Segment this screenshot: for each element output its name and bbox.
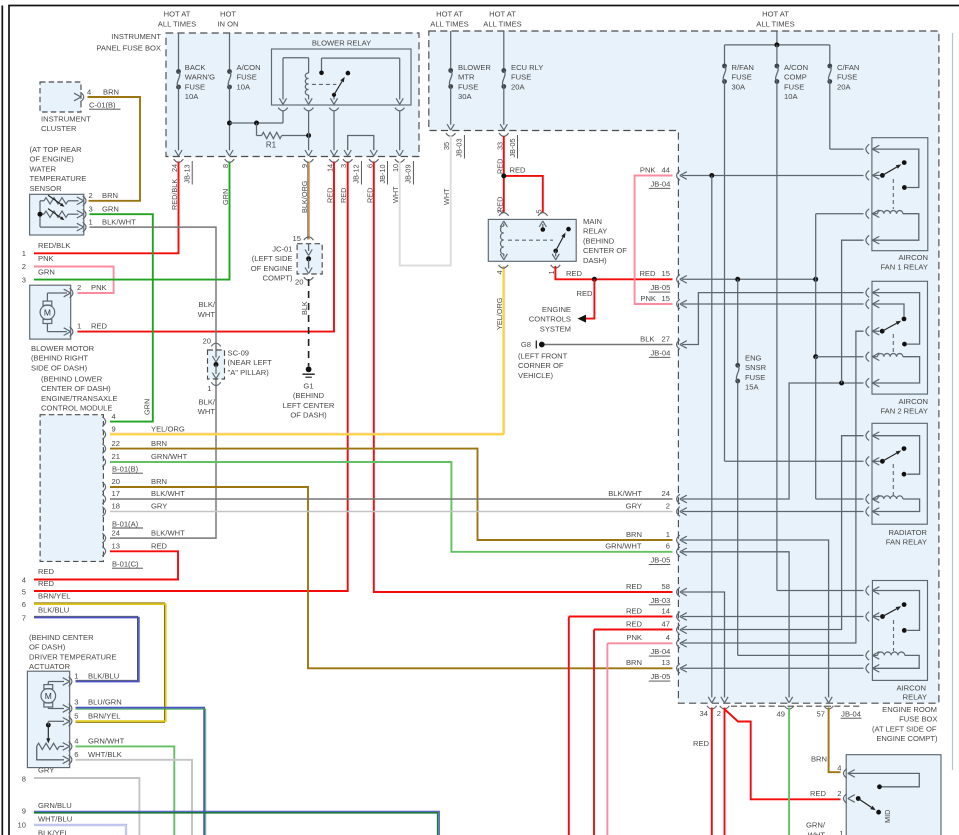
svg-text:JB-04: JB-04 — [650, 647, 670, 656]
wire GRY row 8 down — [34, 778, 139, 835]
main relay top cups — [495, 209, 547, 215]
wire BLK/WHT sensor pin1 through SC-09 to ECM pin 24 — [90, 227, 217, 538]
svg-text:13: 13 — [662, 658, 670, 667]
row 2 labels — [22, 254, 54, 271]
pin 24 label — [170, 164, 179, 172]
label B-01(B) — [112, 465, 143, 474]
svg-text:GRY: GRY — [38, 766, 54, 775]
blower motor pin 1 — [70, 322, 108, 337]
row 6 labels — [22, 592, 71, 609]
wire blower relay pin C to box edge — [330, 111, 337, 156]
svg-text:OF DASH): OF DASH) — [29, 643, 66, 652]
sensor thermistor 1 — [40, 195, 79, 207]
page frame right faint rule — [952, 33, 954, 770]
MID pin 2 — [837, 789, 855, 803]
fuse A/CON FUSE 10A — [226, 33, 261, 156]
svg-text:1: 1 — [839, 829, 843, 835]
svg-text:2: 2 — [666, 501, 670, 510]
svg-text:BLK/BLU: BLK/BLU — [38, 606, 69, 615]
wire name BLK (rotated) — [300, 301, 309, 315]
actuator pin 6 — [69, 750, 122, 765]
svg-text:15: 15 — [293, 234, 301, 243]
svg-text:10A: 10A — [784, 92, 798, 101]
wire RED pin6 to JB-03 58 — [374, 162, 673, 593]
svg-text:RADIATOR: RADIATOR — [888, 528, 927, 537]
wire YEL/ORG ECM pin9 to main relay pin 4 (two-tone) — [110, 266, 505, 435]
svg-text:FAN 2 RELAY: FAN 2 RELAY — [880, 407, 928, 416]
svg-text:6: 6 — [74, 750, 78, 759]
svg-text:BLK/: BLK/ — [199, 398, 216, 407]
pin 34 label — [700, 709, 708, 718]
radiator relay switch — [872, 436, 919, 496]
svg-text:1: 1 — [74, 672, 78, 681]
svg-text:WHT: WHT — [198, 407, 216, 416]
svg-text:BLOWER RELAY: BLOWER RELAY — [312, 39, 371, 48]
svg-text:"A" PILLAR): "A" PILLAR) — [228, 368, 270, 377]
svg-text:GRN: GRN — [102, 204, 119, 213]
svg-text:PNK: PNK — [640, 165, 656, 174]
aircon fan2 relay switch — [872, 293, 919, 353]
label B-01(A) — [112, 519, 143, 528]
svg-text:15: 15 — [662, 294, 670, 303]
pin 33 label — [495, 142, 504, 150]
label RED branch — [510, 166, 527, 175]
label instrument panel fuse box — [96, 32, 161, 53]
svg-text:10A: 10A — [185, 92, 199, 101]
wire RED pin14 to blower motor pin 1 — [78, 162, 335, 332]
svg-text:PNK: PNK — [38, 254, 54, 263]
ECM pin 22 label — [112, 439, 168, 448]
svg-text:HOT AT: HOT AT — [489, 10, 516, 19]
fuse BLOWER MTR FUSE 30A — [447, 31, 491, 130]
wire BRN bottom pin 57 to MID pin 4 — [829, 708, 841, 773]
pin JB-09 label — [404, 161, 414, 185]
ECM pin 13 label — [112, 542, 168, 551]
svg-text:OF ENGINE: OF ENGINE — [251, 264, 293, 273]
wire BLK/BLU row 7 to actuator pin 1 (two-tone) — [34, 616, 139, 681]
svg-text:BLK: BLK — [300, 301, 309, 315]
pin 14 label — [326, 164, 335, 172]
svg-text:B-01(B): B-01(B) — [112, 465, 139, 474]
svg-text:BLOWER: BLOWER — [458, 63, 491, 72]
label HOT IN ON (a/con fuse) — [217, 10, 238, 29]
wire rail to blower relay pin — [230, 111, 284, 126]
blower relay coil — [279, 58, 312, 105]
svg-text:GRN/WHT: GRN/WHT — [88, 736, 125, 745]
svg-text:58: 58 — [662, 582, 670, 591]
svg-text:30A: 30A — [458, 92, 472, 101]
edge connector BLK/WHT 24 — [608, 489, 687, 504]
svg-text:JB-03: JB-03 — [650, 596, 670, 605]
driver temperature actuator box — [27, 671, 69, 767]
radiator relay coil — [872, 496, 919, 512]
svg-text:DASH): DASH) — [583, 256, 607, 265]
svg-text:24: 24 — [662, 489, 670, 498]
actuator pin 3 — [69, 698, 122, 714]
label engine/transaxle control module — [41, 375, 117, 413]
pin 6 label — [365, 164, 374, 168]
aircon fan2 relay coil — [872, 354, 919, 383]
wire RED 14 to aircon relay pin 2 column — [569, 617, 673, 835]
row 1 labels — [22, 241, 71, 258]
label HOT AT ALL TIMES (back warn'g fuse) — [158, 10, 196, 29]
svg-text:JB-05: JB-05 — [650, 556, 670, 565]
svg-text:JB-05: JB-05 — [650, 283, 670, 292]
ECM pin 17 label — [112, 489, 186, 498]
svg-text:14: 14 — [662, 606, 670, 615]
svg-text:GRN: GRN — [38, 267, 55, 276]
svg-text:SYSTEM: SYSTEM — [540, 324, 571, 333]
svg-text:INSTRUMENT: INSTRUMENT — [41, 115, 91, 124]
wire BLK/WHT ECM pin17 to 24 — [110, 498, 673, 500]
svg-text:RED: RED — [810, 789, 827, 798]
svg-text:(AT TOP REAR: (AT TOP REAR — [30, 145, 83, 154]
wire name BLK/ORG (rotated) — [300, 180, 309, 213]
svg-text:2: 2 — [89, 191, 93, 200]
wire WHT/BLU row 10 down (two-tone) — [34, 825, 126, 835]
svg-text:RED: RED — [38, 567, 55, 576]
edge connector PNK 44 — [640, 165, 687, 188]
svg-text:44: 44 — [662, 165, 670, 174]
ECM pin 21 label — [112, 452, 188, 461]
svg-text:34: 34 — [700, 709, 708, 718]
edge connector RED 15 — [639, 269, 686, 292]
svg-text:5: 5 — [22, 588, 26, 597]
wire top rail — [725, 31, 830, 47]
wire RED 58 row internal — [682, 592, 728, 703]
svg-text:JB-03: JB-03 — [455, 138, 464, 157]
svg-text:B-01(C): B-01(C) — [112, 560, 139, 569]
svg-text:RED: RED — [626, 620, 643, 629]
engine room fuse box (dashed L-shape) — [429, 31, 939, 703]
ECM pin 9 label — [112, 425, 185, 434]
sensor thermistor 2 — [40, 209, 79, 221]
engine room box bottom pin cups — [707, 706, 862, 709]
svg-text:(BEHIND CENTER: (BEHIND CENTER — [29, 633, 94, 642]
svg-text:OF DASH): OF DASH) — [290, 411, 327, 420]
svg-text:RED: RED — [510, 166, 527, 175]
svg-text:FUSE: FUSE — [837, 73, 857, 82]
svg-text:FUSE: FUSE — [458, 82, 478, 91]
svg-text:RED: RED — [91, 322, 108, 331]
water temperature sensor box — [30, 194, 84, 235]
sensor inner rail — [38, 201, 79, 227]
actuator pin 5 wiper — [46, 718, 70, 744]
svg-text:SC-09: SC-09 — [228, 349, 250, 358]
instrument cluster pin 4 — [74, 88, 119, 102]
svg-text:20A: 20A — [511, 82, 525, 91]
svg-text:AIRCON: AIRCON — [898, 253, 928, 262]
wire RED pin 2 branch to MID pin 2 — [725, 710, 841, 800]
svg-text:MID: MID — [883, 810, 892, 823]
svg-text:7: 7 — [22, 614, 26, 623]
svg-text:4: 4 — [112, 412, 116, 421]
aircon relay coil — [872, 652, 919, 668]
svg-text:ENGINE ROOM: ENGINE ROOM — [882, 705, 937, 714]
svg-text:4: 4 — [22, 576, 26, 585]
svg-text:BLK/WHT: BLK/WHT — [151, 489, 185, 498]
svg-text:M: M — [45, 691, 52, 701]
label aircon fan 1 relay — [880, 253, 928, 272]
middle box bottom pin cups — [446, 133, 509, 136]
blower relay pin cups — [278, 108, 404, 111]
svg-text:GRY: GRY — [151, 502, 167, 511]
aircon fan1 relay switch — [872, 149, 919, 209]
actuator pin 4 — [69, 736, 125, 751]
svg-text:COMPT): COMPT) — [263, 274, 293, 283]
svg-text:BLK/: BLK/ — [199, 300, 216, 309]
svg-text:HOT AT: HOT AT — [436, 10, 463, 19]
edge connector BRN 1 — [626, 530, 687, 545]
MID pin 4 — [837, 764, 855, 779]
svg-text:AIRCON: AIRCON — [898, 397, 928, 406]
pin 35 label — [442, 142, 451, 150]
svg-text:20: 20 — [203, 337, 211, 346]
svg-text:G8: G8 — [521, 340, 531, 349]
svg-text:9: 9 — [112, 425, 116, 434]
svg-text:SNSR: SNSR — [745, 363, 767, 372]
svg-text:(BEHIND: (BEHIND — [583, 236, 615, 245]
svg-text:20: 20 — [112, 477, 120, 486]
svg-text:ALL TIMES: ALL TIMES — [430, 20, 468, 29]
svg-text:21: 21 — [112, 452, 120, 461]
wire name BLK/WHT below SC-09 — [198, 398, 216, 417]
blower motor symbol — [40, 289, 71, 335]
svg-text:LEFT CENTER: LEFT CENTER — [283, 401, 335, 410]
wire name RED pin3 (rotated) — [339, 188, 348, 203]
svg-text:4: 4 — [74, 736, 78, 745]
pin 3 label — [339, 164, 348, 168]
wire BLK/ORG pin9 to JC-01 (two-tone) — [308, 162, 309, 240]
wire BRN 1 row internal — [682, 540, 832, 703]
actuator pin 1 — [69, 672, 120, 687]
aircon relay switch — [872, 591, 919, 652]
svg-text:RED/BLK: RED/BLK — [38, 241, 71, 250]
wire RED pin3 to row 5 — [34, 162, 348, 592]
edge connector PNK 4 — [626, 633, 686, 656]
wire name RED to relay pin2 (rotated) — [495, 197, 504, 212]
svg-text:WARN'G: WARN'G — [185, 73, 215, 82]
wire GRN/WHT ECM pin21 to JB-05 6 — [110, 462, 673, 552]
svg-text:SIDE OF DASH): SIDE OF DASH) — [31, 363, 88, 372]
wire BRN ECM pin22 to JB-05 1 — [110, 449, 673, 540]
wire GRN/BLU row 9 down (two-tone) — [34, 811, 439, 835]
wire RED to engine controls system — [578, 279, 595, 322]
svg-text:10: 10 — [18, 821, 26, 830]
svg-text:GRN/WHT: GRN/WHT — [605, 542, 642, 551]
fuse C/FAN FUSE 20A — [827, 45, 863, 149]
edge connector PNK 15 — [640, 294, 686, 309]
actuator pin 5 — [69, 711, 121, 726]
svg-text:CLUSTER: CLUSTER — [41, 124, 77, 133]
svg-text:8: 8 — [22, 775, 26, 784]
svg-text:A/CON: A/CON — [784, 63, 808, 72]
svg-text:C/FAN: C/FAN — [837, 63, 859, 72]
label C-01(B) — [89, 101, 121, 110]
connector JC-01 — [293, 234, 323, 287]
aircon fan1 relay pins — [866, 144, 879, 245]
label RED (vertical branch) — [577, 289, 594, 298]
edge connector BRN 13 — [626, 658, 687, 681]
MID pin 1 label — [839, 829, 843, 835]
svg-text:IN ON: IN ON — [217, 20, 238, 29]
fuse BACK WARN'G FUSE 10A — [175, 33, 215, 156]
svg-text:15: 15 — [662, 269, 670, 278]
svg-text:ALL TIMES: ALL TIMES — [158, 20, 196, 29]
svg-text:WHT: WHT — [808, 831, 826, 835]
wire to bottom pin 34 — [708, 176, 715, 703]
svg-text:(NEAR LEFT: (NEAR LEFT — [228, 358, 273, 367]
pin JB-13 label — [183, 161, 193, 185]
ECM pin cups — [102, 417, 105, 556]
svg-text:JC-01: JC-01 — [272, 245, 292, 254]
svg-text:ALL TIMES: ALL TIMES — [756, 20, 794, 29]
edge connector RED 14 — [626, 606, 687, 621]
wire name WHT pin35 (rotated) — [442, 188, 451, 205]
svg-text:20: 20 — [295, 278, 303, 287]
svg-text:ENGINE COMPT): ENGINE COMPT) — [876, 734, 938, 743]
label HOT AT ALL TIMES (ecu rly fuse) — [483, 10, 521, 29]
ECM box (dashed) — [40, 415, 103, 562]
svg-text:30A: 30A — [732, 82, 746, 91]
svg-text:JB-04: JB-04 — [650, 179, 670, 188]
svg-text:ENG: ENG — [745, 354, 762, 363]
svg-text:RED: RED — [577, 289, 594, 298]
svg-text:4: 4 — [495, 270, 504, 274]
label JC-01 location — [251, 245, 293, 283]
row 8 labels — [22, 766, 55, 784]
actuator potentiometer — [37, 743, 70, 764]
label MID (rotated) — [883, 810, 892, 823]
svg-text:17: 17 — [112, 489, 120, 498]
wire BRN 13 row internal — [682, 667, 864, 669]
svg-text:COMP: COMP — [784, 73, 807, 82]
svg-text:3: 3 — [22, 275, 26, 284]
svg-text:BLK/BLU: BLK/BLU — [88, 672, 119, 681]
svg-text:9: 9 — [22, 807, 26, 816]
svg-text:(LEFT SIDE: (LEFT SIDE — [252, 254, 293, 263]
svg-text:10A: 10A — [237, 82, 251, 91]
svg-text:ENGINE/TRANSAXLE: ENGINE/TRANSAXLE — [41, 394, 117, 403]
svg-text:WHT: WHT — [198, 310, 216, 319]
svg-text:GRN/BLU: GRN/BLU — [38, 801, 72, 810]
edge connector GRY 2 — [626, 501, 687, 516]
svg-text:AIRCON: AIRCON — [896, 684, 926, 693]
row 3 labels — [22, 267, 55, 284]
svg-text:R/FAN: R/FAN — [732, 63, 754, 72]
connector SC-09 — [203, 337, 225, 394]
relay box AIRCON FAN 2 RELAY — [872, 281, 928, 394]
wire name YEL/ORG (rotated) — [495, 297, 504, 330]
wire blower relay pin B to box edge — [305, 111, 312, 156]
svg-text:PNK: PNK — [91, 283, 107, 292]
svg-text:(LEFT FRONT: (LEFT FRONT — [518, 352, 568, 361]
label G8 location — [518, 352, 568, 380]
row 4 labels — [22, 567, 55, 585]
row 10 labels — [18, 815, 73, 830]
wire RED bottom pin 34 — [711, 708, 713, 835]
svg-text:BLK/WHT: BLK/WHT — [102, 217, 136, 226]
pin 8 label — [221, 164, 230, 168]
node junction on A/CON fuse wire — [227, 121, 232, 126]
svg-text:YEL/ORG: YEL/ORG — [495, 297, 504, 330]
svg-text:RED: RED — [693, 739, 710, 748]
pin JB-04 label — [841, 710, 862, 719]
svg-text:BLOWER MOTOR: BLOWER MOTOR — [31, 344, 95, 353]
row 9 labels — [22, 801, 72, 816]
svg-text:20A: 20A — [837, 82, 851, 91]
svg-text:HOT AT: HOT AT — [164, 10, 191, 19]
instrument panel fuse box bottom pin cups — [174, 159, 405, 162]
label engine room fuse box — [872, 705, 938, 743]
ECM pin 18 label — [112, 502, 168, 511]
svg-text:BRN: BRN — [626, 530, 642, 539]
sensor pin 2 — [77, 191, 118, 206]
svg-text:15A: 15A — [745, 383, 759, 392]
svg-text:FUSE: FUSE — [511, 73, 531, 82]
label SC-09 — [228, 349, 273, 377]
wire GRN/WHT bottom pin 49 — [788, 708, 790, 835]
svg-text:RED: RED — [639, 269, 656, 278]
wire BRN ECM pin20 to JB-05 13 — [110, 487, 673, 668]
fuse ENG SNSR FUSE 15A — [735, 279, 863, 655]
main relay bottom cups — [495, 265, 560, 275]
svg-text:GRN/WHT: GRN/WHT — [151, 452, 188, 461]
svg-text:BLK/WHT: BLK/WHT — [608, 489, 642, 498]
label driver temperature actuator — [29, 633, 116, 671]
svg-text:CORNER OF: CORNER OF — [518, 361, 564, 370]
svg-text:CENTER OF: CENTER OF — [583, 246, 627, 255]
svg-text:BRN: BRN — [103, 88, 119, 97]
svg-text:RELAY: RELAY — [583, 227, 607, 236]
wire PNK 44 row internal — [682, 173, 864, 178]
wire RED pin33 to main relay — [504, 136, 543, 213]
svg-text:(AT LEFT SIDE OF: (AT LEFT SIDE OF — [872, 724, 937, 733]
pin JB-03 label (rotated) — [455, 135, 465, 159]
svg-text:ACTUATOR: ACTUATOR — [29, 662, 71, 671]
svg-text:(BEHIND LOWER: (BEHIND LOWER — [41, 375, 103, 384]
blower motor pin 2 — [70, 283, 107, 298]
fuse ECU RLY FUSE 20A — [500, 31, 543, 130]
svg-text:BLU/GRN: BLU/GRN — [88, 698, 122, 707]
svg-text:JB-05: JB-05 — [508, 138, 517, 157]
svg-text:FUSE: FUSE — [185, 82, 205, 91]
svg-text:FUSE: FUSE — [745, 373, 765, 382]
wire name GRN (rotated) — [221, 189, 230, 205]
svg-text:MTR: MTR — [458, 73, 475, 82]
relay box MAIN RELAY — [488, 219, 576, 261]
svg-text:(BEHIND: (BEHIND — [293, 391, 325, 400]
svg-text:RED: RED — [626, 582, 643, 591]
pin JB-10 label — [378, 161, 388, 185]
svg-text:3: 3 — [89, 204, 93, 213]
svg-text:R1: R1 — [266, 141, 277, 150]
label HOT AT ALL TIMES (engine room fuses) — [756, 10, 794, 29]
svg-text:INSTRUMENT: INSTRUMENT — [111, 32, 161, 41]
wire aircon fan1 coil return — [842, 240, 864, 383]
svg-text:RELAY: RELAY — [903, 693, 927, 702]
svg-text:5: 5 — [534, 209, 543, 213]
svg-text:ECU RLY: ECU RLY — [511, 63, 543, 72]
wire BLU/GRN actuator pin 3 down (two-tone) — [76, 708, 206, 835]
pin 2 label — [717, 709, 721, 718]
svg-text:YEL/ORG: YEL/ORG — [151, 425, 185, 434]
svg-text:1: 1 — [22, 249, 26, 258]
svg-text:FUSE BOX: FUSE BOX — [899, 715, 937, 724]
wire PNK 4 column — [607, 643, 672, 835]
ECM pin 24 label — [112, 528, 186, 537]
svg-text:2: 2 — [22, 262, 26, 271]
